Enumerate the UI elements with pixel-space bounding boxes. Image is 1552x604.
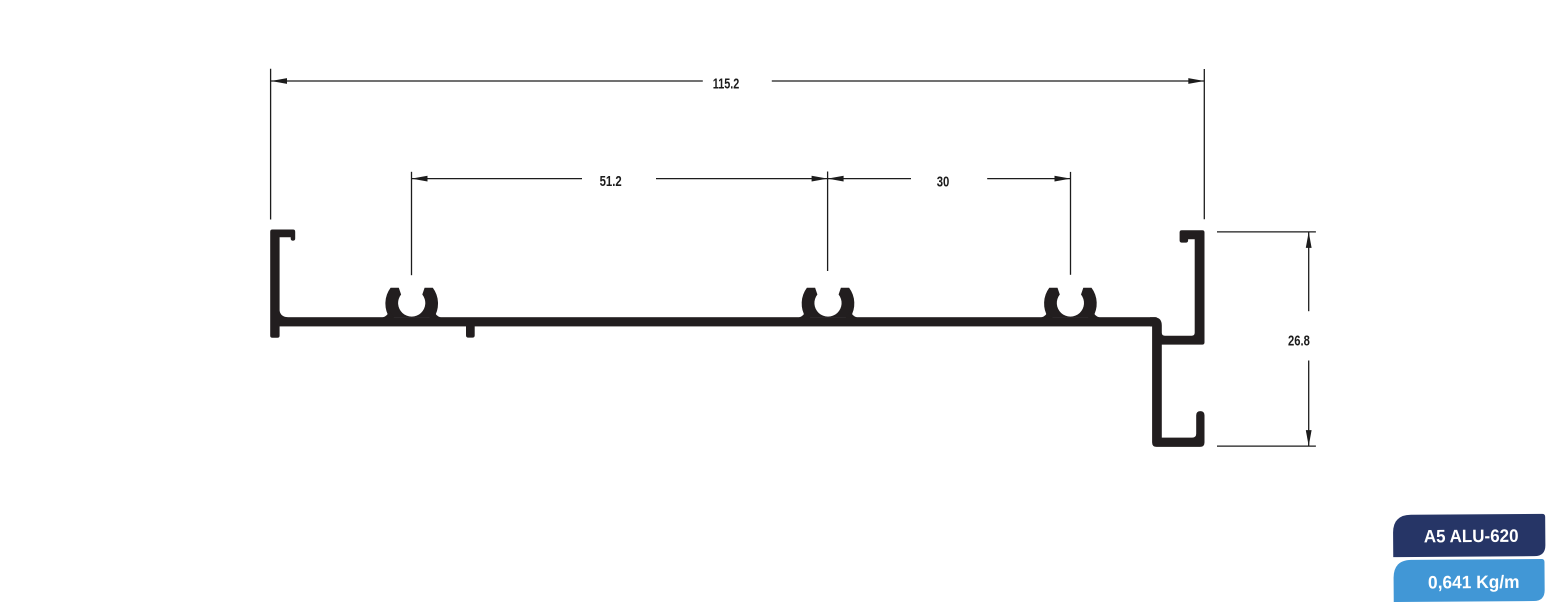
svg-text:115.2: 115.2 [713, 77, 740, 93]
left inner fillet at wall/bar junction [280, 311, 288, 319]
dim 26.8 extension line bottom [1217, 445, 1316, 447]
arrow 30 left [828, 176, 844, 182]
dim 115.2 extension line left [270, 69, 272, 220]
boss 2 base flare right [846, 311, 858, 318]
arrow 30 right [1055, 176, 1071, 182]
dim 115.2 line left segment [271, 80, 703, 82]
dimension drawing lines [271, 69, 1316, 446]
screw boss 3 (cx 1070.4) [1044, 288, 1097, 318]
dim 30 extension line at boss 2 [827, 172, 829, 272]
badge: weight 0,641 Kg/m [1393, 559, 1544, 602]
svg-text:26.8: 26.8 [1288, 334, 1310, 350]
arrow 51.2 right [812, 176, 828, 182]
dim 51.2 line left segment [412, 178, 583, 180]
dim 51.2 line right segment [656, 178, 828, 180]
boss 3 base flare right [1088, 311, 1100, 318]
dim 30 line left segment [828, 178, 911, 180]
arrow 115.2 left [271, 78, 287, 84]
dim 115.2 extension line right [1203, 69, 1205, 219]
dim 30 extension line at boss 3 [1070, 172, 1072, 275]
boss 3 base flare left [1041, 311, 1053, 318]
dim 30 line right segment [987, 178, 1070, 180]
arrow 26.8 down [1306, 430, 1312, 446]
small tab below bar at x=470 [466, 320, 475, 338]
svg-text:A5 ALU-620: A5 ALU-620 [1424, 526, 1519, 547]
arrow 51.2 left [412, 176, 428, 182]
arrow 115.2 right [1188, 78, 1204, 84]
badge: profile code A5 ALU-620 [1393, 514, 1545, 557]
boss 1 base flare right [429, 311, 441, 318]
boss 2 base flare left [799, 311, 811, 318]
svg-text:0,641 Kg/m: 0,641 Kg/m [1428, 572, 1520, 593]
dim 26.8 line lower segment [1308, 361, 1310, 447]
dim 115.2 line right segment [772, 80, 1204, 82]
dim 26.8 extension line top [1217, 231, 1316, 233]
svg-text:30: 30 [937, 174, 950, 190]
right end assembly: step, J-channel, lower leg, foot and hook [1150, 230, 1205, 447]
arrow 26.8 up [1306, 232, 1312, 248]
left end: vertical wall with top lip [270, 230, 295, 338]
main horizontal bar [272, 317, 1157, 326]
dim 51.2 extension line at boss 1 [411, 172, 413, 275]
screw boss 2 (cx 828) [802, 288, 855, 318]
svg-text:51.2: 51.2 [600, 174, 622, 190]
screw boss 1 (cx 411.7) [385, 288, 438, 318]
boss 1 base flare left [383, 311, 395, 318]
dim 26.8 line upper segment [1308, 232, 1310, 311]
